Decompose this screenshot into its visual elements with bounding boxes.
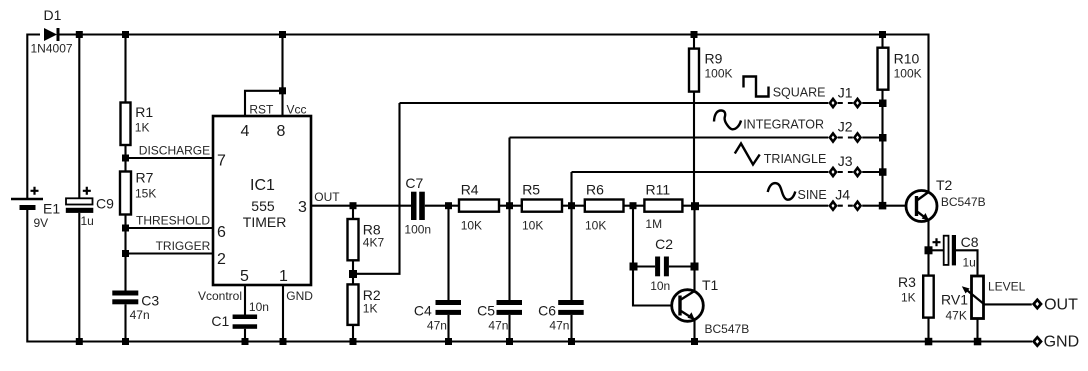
wire top rail (27, 35, 928, 200)
node J1 R10 column (879, 100, 887, 108)
node R6 R11 (630, 202, 637, 209)
svg-text:D1: D1 (44, 7, 62, 23)
svg-text:SINE: SINE (798, 188, 827, 202)
svg-text:THRESHOLD: THRESHOLD (136, 214, 210, 228)
wire bottom rail (27, 210, 1032, 342)
node bottom rail T1 emitter (691, 338, 698, 345)
pin 5 Vcontrol (198, 268, 249, 315)
node bottom rail R2 (350, 338, 357, 345)
node threshold (122, 225, 129, 232)
svg-text:2: 2 (217, 251, 226, 268)
resistor R1 (121, 35, 154, 172)
svg-text:DISCHARGE: DISCHARGE (139, 144, 210, 158)
svg-text:T2: T2 (936, 177, 953, 193)
svg-text:E1: E1 (43, 201, 60, 217)
node top rail R10 (879, 31, 886, 38)
svg-text:100K: 100K (894, 67, 922, 81)
svg-text:R3: R3 (898, 274, 916, 290)
svg-text:Vcc: Vcc (287, 103, 307, 117)
node bottom rail pin1 (280, 338, 287, 345)
svg-text:TRIANGLE: TRIANGLE (764, 152, 827, 166)
svg-text:LEVEL: LEVEL (988, 280, 1026, 294)
svg-text:C1: C1 (211, 313, 229, 329)
svg-text:15K: 15K (135, 187, 156, 201)
pin 4 RST (241, 91, 283, 140)
capacitor C8 (929, 234, 979, 275)
svg-text:T1: T1 (702, 277, 719, 293)
svg-text:IC1: IC1 (250, 177, 275, 194)
svg-text:BC547B: BC547B (941, 195, 986, 209)
capacitor C4 (414, 206, 461, 342)
node trigger (122, 250, 129, 257)
node R3 bottom rail (925, 338, 933, 346)
capacitor C5 (477, 206, 522, 342)
node top rail C9 (76, 31, 83, 38)
jumper J4 (828, 187, 915, 212)
svg-text:8: 8 (277, 123, 286, 140)
svg-text:C2: C2 (655, 236, 673, 252)
resistor R9 (689, 35, 733, 92)
svg-text:J4: J4 (835, 187, 850, 203)
node R4 R5 (506, 202, 513, 209)
capacitor C7 (404, 175, 459, 237)
svg-text:10K: 10K (585, 219, 606, 233)
svg-text:C3: C3 (141, 293, 159, 309)
svg-text:J2: J2 (838, 119, 853, 135)
svg-text:C5: C5 (477, 303, 495, 319)
svg-text:TRIGGER: TRIGGER (156, 239, 211, 253)
node top rail R9 (691, 31, 698, 38)
resistor R10 (878, 35, 922, 206)
svg-text:1u: 1u (81, 214, 94, 228)
svg-text:10n: 10n (249, 300, 269, 314)
svg-text:47n: 47n (549, 319, 569, 333)
transistor T1 (672, 277, 750, 342)
svg-text:SQUARE: SQUARE (773, 85, 826, 99)
svg-text:7: 7 (217, 153, 226, 170)
svg-text:INTEGRATOR: INTEGRATOR (743, 118, 824, 132)
svg-text:OUT: OUT (314, 190, 340, 204)
svg-text:10n: 10n (650, 279, 670, 293)
pin 8 Vcc (277, 35, 307, 141)
node J4 R10 column (879, 202, 887, 210)
jumper J1 (828, 84, 882, 109)
jumper J2 (828, 119, 882, 144)
node C2 left (630, 263, 638, 271)
svg-text:TIMER: TIMER (243, 214, 287, 230)
capacitor C9 (66, 35, 114, 342)
svg-text:R1: R1 (135, 104, 153, 120)
wire triangle riser (570, 172, 572, 206)
wire J3 row (572, 171, 829, 173)
resistor R11 (644, 182, 828, 231)
capacitor C2 (633, 236, 695, 293)
svg-text:1K: 1K (135, 121, 150, 135)
node R8 R2 junction (349, 270, 357, 278)
svg-text:47n: 47n (488, 319, 508, 333)
node RV1 bottom rail (974, 338, 982, 346)
svg-text:GND: GND (286, 289, 313, 303)
svg-text:1M: 1M (645, 217, 662, 231)
pin 1 GND (279, 268, 313, 342)
svg-text:1K: 1K (901, 291, 916, 305)
node OUT R8 (350, 202, 357, 209)
pin 3 OUT (298, 190, 412, 216)
node chain R11 out (691, 202, 699, 210)
svg-text:3: 3 (298, 199, 307, 216)
svg-text:100K: 100K (705, 67, 733, 81)
node C7 C4 (445, 202, 452, 209)
terminal GND (1032, 334, 1079, 351)
svg-text:4K7: 4K7 (363, 236, 385, 250)
svg-text:5: 5 (240, 268, 249, 285)
node bottom rail C4 (445, 338, 452, 345)
svg-text:1K: 1K (363, 301, 378, 315)
svg-text:Vcontrol: Vcontrol (198, 289, 242, 303)
svg-text:47n: 47n (130, 308, 150, 322)
resistor R2 (348, 284, 381, 341)
wire THRESHOLD (126, 227, 214, 229)
node J3 R10 column (879, 168, 887, 176)
wave symbol square (744, 77, 769, 97)
svg-text:4: 4 (241, 123, 250, 140)
resistor R5 (522, 182, 585, 233)
svg-text:555: 555 (251, 198, 275, 214)
svg-text:C8: C8 (961, 234, 979, 250)
jumper J3 (828, 153, 882, 178)
svg-text:RST: RST (249, 103, 274, 117)
svg-text:GND: GND (1044, 334, 1080, 351)
node bottom rail C1 (242, 338, 249, 345)
node C2 right (691, 263, 699, 271)
svg-text:C7: C7 (405, 175, 423, 191)
svg-text:R9: R9 (705, 51, 723, 67)
svg-text:47n: 47n (427, 319, 447, 333)
svg-text:R5: R5 (522, 182, 540, 198)
wave symbol integrator (714, 110, 741, 129)
svg-text:R6: R6 (586, 182, 604, 198)
wave symbol sine (768, 183, 796, 200)
svg-text:C4: C4 (414, 303, 432, 319)
svg-text:6: 6 (217, 224, 226, 241)
potentiometer RV1 (941, 276, 1032, 342)
node top rail R1 (122, 31, 129, 38)
node T2 emitter C8 R3 (925, 246, 933, 254)
node R5 R6 (568, 202, 575, 209)
svg-text:R10: R10 (894, 51, 920, 67)
wave symbol triangle (735, 144, 760, 165)
capacitor C6 (538, 206, 584, 342)
battery E1 (11, 187, 60, 230)
capacitor C3 (112, 291, 159, 342)
svg-text:1N4007: 1N4007 (31, 42, 73, 56)
node bottom rail C9 (76, 338, 83, 345)
node bottom rail C6 (568, 338, 575, 345)
svg-text:1u: 1u (963, 256, 976, 270)
wire T1 base branch (633, 206, 679, 306)
wire integrator riser (508, 138, 510, 206)
node J2 R10 column (879, 134, 887, 142)
resistor R8 (348, 206, 385, 285)
wire J1 row (400, 102, 829, 104)
svg-text:10K: 10K (522, 219, 543, 233)
wire R9 down to T1 collector (693, 92, 696, 291)
terminal OUT (1032, 297, 1078, 314)
svg-text:C9: C9 (96, 196, 114, 212)
svg-text:R4: R4 (461, 182, 479, 198)
op-amp IC1 555 timer box (213, 116, 311, 285)
svg-text:9V: 9V (34, 216, 49, 230)
wire J2 row (510, 136, 829, 138)
svg-text:BC547B: BC547B (705, 322, 750, 336)
svg-text:10K: 10K (461, 219, 482, 233)
resistor R4 (459, 182, 522, 233)
diode D1 (31, 7, 73, 56)
svg-text:J3: J3 (838, 153, 853, 169)
node bottom rail C5 (506, 338, 513, 345)
svg-text:47K: 47K (946, 309, 967, 323)
resistor R6 (585, 182, 645, 233)
resistor R3 (898, 250, 934, 341)
wire TRIGGER (126, 252, 214, 254)
node bottom rail C3 (122, 338, 129, 345)
wire square feedback riser (353, 103, 400, 274)
svg-text:C6: C6 (538, 303, 556, 319)
svg-text:1: 1 (279, 268, 288, 285)
svg-text:OUT: OUT (1044, 297, 1078, 314)
node discharge (122, 155, 129, 162)
svg-text:RV1: RV1 (941, 292, 968, 308)
resistor R7 (120, 170, 156, 291)
transistor T2 (906, 177, 986, 250)
svg-text:R7: R7 (136, 170, 154, 186)
svg-text:J1: J1 (838, 84, 853, 100)
wire DISCHARGE (126, 157, 214, 159)
svg-text:R11: R11 (646, 182, 671, 198)
node top rail Vcc (279, 31, 286, 38)
svg-text:100n: 100n (404, 223, 431, 237)
capacitor C1 (211, 300, 269, 342)
